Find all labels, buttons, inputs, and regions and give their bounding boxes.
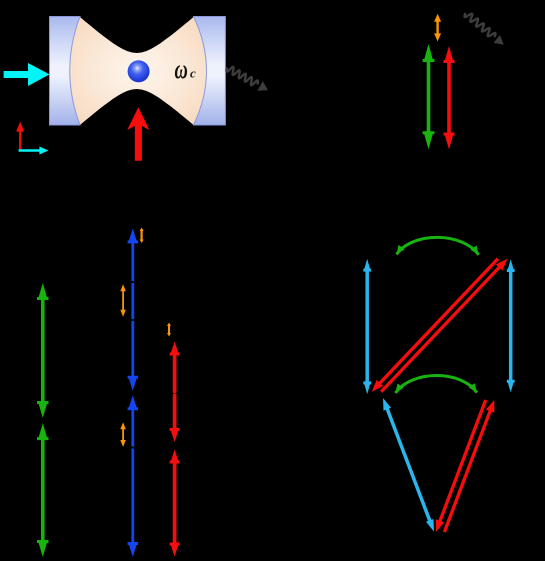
svg-text:c: c <box>190 66 196 81</box>
svg-text:ω: ω <box>175 53 188 83</box>
